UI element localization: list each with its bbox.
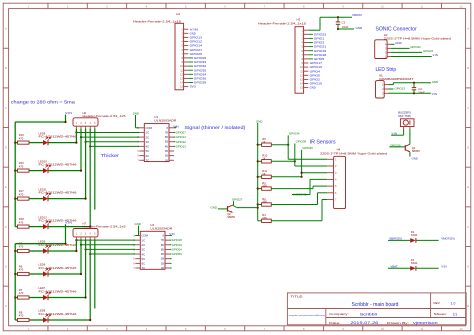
svg-text:GPIO19: GPIO19 xyxy=(172,243,183,247)
svg-text:MLT-7525: MLT-7525 xyxy=(398,114,411,118)
svg-text:100: 100 xyxy=(262,200,267,204)
svg-text:7B: 7B xyxy=(161,239,164,242)
svg-text:8: 8 xyxy=(181,56,183,60)
svg-text:6: 6 xyxy=(301,49,303,53)
svg-text:H: H xyxy=(5,304,7,308)
svg-text:2: 2 xyxy=(80,233,82,236)
svg-text:4: 4 xyxy=(385,42,387,46)
svg-text:6: 6 xyxy=(181,48,183,52)
svg-text:5: 5 xyxy=(185,327,187,331)
svg-text:5: 5 xyxy=(133,258,135,261)
svg-text:7B: 7B xyxy=(165,131,168,134)
svg-text:GPIO36: GPIO36 xyxy=(302,146,313,150)
svg-text:470: 470 xyxy=(19,136,24,140)
svg-text:D: D xyxy=(467,145,469,149)
svg-text:3: 3 xyxy=(106,4,108,8)
svg-text:Signal (thinner / isolated): Signal (thinner / isolated) xyxy=(184,125,245,131)
svg-text:13: 13 xyxy=(180,77,183,81)
svg-text:10: 10 xyxy=(180,64,183,68)
svg-text:B: B xyxy=(5,66,7,70)
svg-text:220S-1*7P H=8.5MM Ytype Gold-p: 220S-1*7P H=8.5MM Ytype Gold-plated xyxy=(384,37,452,41)
svg-text:220S-1*7P H=8.5MM Ytype Gold-p: 220S-1*7P H=8.5MM Ytype Gold-plated xyxy=(320,152,388,156)
svg-text:FC-A2012WD-457H6: FC-A2012WD-457H6 xyxy=(39,135,78,139)
svg-text:2: 2 xyxy=(67,327,69,331)
svg-text:V.IN: V.IN xyxy=(432,92,437,96)
svg-text:LED Strip: LED Strip xyxy=(376,67,397,73)
svg-text:4C: 4C xyxy=(146,145,150,149)
svg-text:11: 11 xyxy=(420,327,423,331)
svg-text:F: F xyxy=(5,225,7,229)
svg-text:SS34: SS34 xyxy=(411,233,418,237)
svg-text:1B: 1B xyxy=(165,159,168,162)
svg-text:GND: GND xyxy=(412,157,418,161)
svg-text:10uF: 10uF xyxy=(342,25,349,29)
svg-text:470: 470 xyxy=(19,192,24,196)
svg-text:1: 1 xyxy=(76,233,78,236)
svg-text:ULN2003ADR: ULN2003ADR xyxy=(154,119,177,123)
svg-text:GND: GND xyxy=(211,206,217,210)
svg-text:1K: 1K xyxy=(262,140,265,144)
svg-text:easyeda.com/vjmorrison/scribbl: easyeda.com/vjmorrison/scribblr-main xyxy=(289,314,326,317)
svg-text:10: 10 xyxy=(381,4,384,8)
svg-text:GPIO12: GPIO12 xyxy=(176,140,187,144)
svg-text:2019-07-26: 2019-07-26 xyxy=(350,321,378,325)
svg-text:14: 14 xyxy=(180,81,183,85)
svg-text:11: 11 xyxy=(300,69,303,73)
svg-text:8: 8 xyxy=(166,127,168,130)
svg-text:13: 13 xyxy=(300,78,303,82)
svg-text:G: G xyxy=(467,264,469,268)
svg-text:4: 4 xyxy=(181,40,183,44)
svg-text:1C: 1C xyxy=(146,131,150,135)
svg-text:FC-A2012WD-457H6: FC-A2012WD-457H6 xyxy=(39,290,78,294)
svg-text:vjmorrison: vjmorrison xyxy=(413,321,438,325)
svg-text:7: 7 xyxy=(301,53,303,57)
svg-text:9: 9 xyxy=(342,327,344,331)
svg-text:5C: 5C xyxy=(146,149,150,153)
svg-text:8: 8 xyxy=(301,57,303,61)
svg-text:3: 3 xyxy=(301,37,303,41)
svg-text:V.IN: V.IN xyxy=(441,265,446,269)
svg-text:H: H xyxy=(467,304,469,308)
svg-text:1K: 1K xyxy=(262,156,265,160)
svg-text:4: 4 xyxy=(146,4,148,8)
svg-text:IR Sensors: IR Sensors xyxy=(310,139,336,145)
svg-text:2B: 2B xyxy=(161,262,164,265)
svg-text:7: 7 xyxy=(264,4,266,8)
svg-text:Company:: Company: xyxy=(329,312,349,316)
svg-text:6: 6 xyxy=(335,191,337,195)
svg-text:GPIO18: GPIO18 xyxy=(172,238,183,242)
svg-text:2: 2 xyxy=(335,164,337,168)
svg-text:1: 1 xyxy=(335,157,337,161)
svg-text:4: 4 xyxy=(146,327,148,331)
svg-text:5: 5 xyxy=(137,150,139,153)
svg-text:3C: 3C xyxy=(142,248,146,252)
svg-text:8: 8 xyxy=(303,327,305,331)
svg-text:12: 12 xyxy=(460,4,463,8)
svg-text:5B: 5B xyxy=(165,141,168,144)
svg-text:10: 10 xyxy=(381,327,384,331)
svg-text:GPIO13: GPIO13 xyxy=(395,86,406,90)
svg-text:2: 2 xyxy=(385,51,387,55)
svg-text:1: 1 xyxy=(28,4,30,8)
svg-text:GPIO26: GPIO26 xyxy=(390,143,401,147)
svg-text:14: 14 xyxy=(300,82,303,86)
svg-text:SONIC Connector: SONIC Connector xyxy=(376,26,417,32)
svg-text:7C: 7C xyxy=(142,266,146,270)
svg-text:GPIO14: GPIO14 xyxy=(176,135,187,139)
svg-text:1: 1 xyxy=(382,83,384,87)
svg-text:12: 12 xyxy=(300,73,303,77)
svg-text:COM: COM xyxy=(142,234,149,238)
svg-text:5B: 5B xyxy=(161,248,164,251)
svg-text:GPIO07: GPIO07 xyxy=(176,131,187,135)
svg-text:GPIO05: GPIO05 xyxy=(172,252,183,256)
svg-text:470: 470 xyxy=(19,245,24,249)
svg-text:GPIO22: GPIO22 xyxy=(410,45,421,49)
svg-text:C: C xyxy=(467,106,469,110)
svg-text:11: 11 xyxy=(180,68,183,72)
svg-text:1C: 1C xyxy=(142,238,146,242)
svg-text:12: 12 xyxy=(180,72,183,76)
svg-text:E: E xyxy=(5,185,7,189)
svg-text:GPIO13: GPIO13 xyxy=(176,144,187,148)
svg-text:6C: 6C xyxy=(142,262,146,266)
svg-text:100: 100 xyxy=(262,216,267,220)
svg-text:4C: 4C xyxy=(142,252,146,256)
svg-text:Drawn By:: Drawn By: xyxy=(387,321,409,325)
svg-text:2: 2 xyxy=(301,32,303,36)
svg-text:100: 100 xyxy=(262,184,267,188)
svg-text:GND: GND xyxy=(432,80,438,84)
svg-text:S8050: S8050 xyxy=(227,215,235,219)
svg-text:4B: 4B xyxy=(165,145,168,148)
svg-text:10uF: 10uF xyxy=(418,91,425,95)
svg-text:8: 8 xyxy=(162,235,164,238)
svg-text:7: 7 xyxy=(335,198,337,202)
svg-text:V.IN: V.IN xyxy=(433,53,438,57)
svg-text:6B: 6B xyxy=(165,136,168,139)
svg-text:F: F xyxy=(467,225,469,229)
svg-text:5: 5 xyxy=(94,122,96,125)
svg-text:GND: GND xyxy=(135,222,141,226)
svg-text:3C: 3C xyxy=(146,140,150,144)
svg-text:12: 12 xyxy=(460,327,463,331)
svg-text:Scribblr - main board: Scribblr - main board xyxy=(352,302,399,308)
svg-text:SS34: SS34 xyxy=(411,261,418,265)
svg-text:GPIO34: GPIO34 xyxy=(289,131,300,135)
svg-text:1: 1 xyxy=(301,28,303,32)
svg-text:FC-A2012WD-457H6: FC-A2012WD-457H6 xyxy=(39,312,78,316)
svg-text:FC-A2012WD-457H6: FC-A2012WD-457H6 xyxy=(39,163,78,167)
svg-text:G: G xyxy=(5,264,7,268)
svg-text:5: 5 xyxy=(335,184,337,188)
svg-text:2: 2 xyxy=(80,122,82,125)
svg-text:6C: 6C xyxy=(146,154,150,158)
svg-text:GPIO04: GPIO04 xyxy=(172,248,183,252)
svg-text:GND: GND xyxy=(256,119,262,123)
svg-text:S8050: S8050 xyxy=(412,149,421,153)
svg-text:6: 6 xyxy=(224,4,226,8)
svg-text:D: D xyxy=(5,145,7,149)
svg-text:V.IN: V.IN xyxy=(65,111,72,115)
svg-text:COM: COM xyxy=(146,126,153,130)
svg-text:11: 11 xyxy=(420,4,423,8)
svg-text:GPIO27: GPIO27 xyxy=(232,197,243,201)
svg-text:9: 9 xyxy=(301,61,303,65)
svg-text:4: 4 xyxy=(335,178,337,182)
svg-text:1: 1 xyxy=(181,27,183,31)
svg-text:7: 7 xyxy=(264,327,266,331)
svg-text:H1: H1 xyxy=(176,12,180,16)
svg-text:2C: 2C xyxy=(142,243,146,247)
svg-text:2B: 2B xyxy=(165,155,168,158)
svg-text:C: C xyxy=(5,106,7,110)
svg-text:7C: 7C xyxy=(146,158,150,162)
svg-text:change to 280 ohm = 5ma: change to 280 ohm = 5ma xyxy=(11,100,75,106)
svg-text:9: 9 xyxy=(181,60,183,64)
svg-text:V.IN: V.IN xyxy=(392,132,397,136)
svg-text:GND: GND xyxy=(310,86,317,90)
svg-text:Date:: Date: xyxy=(329,321,341,325)
svg-text:E: E xyxy=(467,185,469,189)
svg-text:FC-A2012WD-457H6: FC-A2012WD-457H6 xyxy=(39,191,78,195)
svg-text:5: 5 xyxy=(94,233,96,236)
svg-text:1: 1 xyxy=(28,327,30,331)
svg-text:1/1: 1/1 xyxy=(453,312,458,316)
svg-text:15: 15 xyxy=(300,86,303,90)
svg-text:470: 470 xyxy=(19,291,24,295)
svg-text:10: 10 xyxy=(300,65,303,69)
svg-text:6: 6 xyxy=(133,262,135,265)
svg-text:A: A xyxy=(467,27,469,31)
svg-text:3: 3 xyxy=(85,122,87,125)
svg-text:VDD5V: VDD5V xyxy=(352,13,362,17)
svg-text:8: 8 xyxy=(303,4,305,8)
svg-text:G020B400P900KMT: G020B400P900KMT xyxy=(379,77,414,81)
svg-text:1B: 1B xyxy=(161,267,164,270)
svg-text:3: 3 xyxy=(181,36,183,40)
svg-text:5: 5 xyxy=(185,4,187,8)
svg-text:1.0: 1.0 xyxy=(451,302,456,306)
svg-text:2C: 2C xyxy=(146,135,150,139)
svg-text:7: 7 xyxy=(133,267,135,270)
svg-text:2: 2 xyxy=(181,31,183,35)
svg-text:1K: 1K xyxy=(262,172,265,176)
svg-text:3: 3 xyxy=(385,46,387,50)
svg-text:GND: GND xyxy=(395,41,401,45)
svg-text:470: 470 xyxy=(19,164,24,168)
svg-text:1: 1 xyxy=(76,122,78,125)
svg-text:6B: 6B xyxy=(161,244,164,247)
svg-text:V.IN: V.IN xyxy=(169,232,174,236)
svg-text:3: 3 xyxy=(106,327,108,331)
svg-text:470: 470 xyxy=(19,268,24,272)
svg-text:3: 3 xyxy=(85,233,87,236)
svg-text:4: 4 xyxy=(301,41,303,45)
svg-text:6: 6 xyxy=(224,327,226,331)
svg-text:3: 3 xyxy=(335,171,337,175)
svg-text:2: 2 xyxy=(382,87,384,91)
svg-text:7: 7 xyxy=(181,52,183,56)
svg-text:B: B xyxy=(467,66,469,70)
svg-text:470: 470 xyxy=(19,314,24,318)
svg-text:FC-A2012WD-457H6: FC-A2012WD-457H6 xyxy=(39,266,78,270)
svg-text:3V3: 3V3 xyxy=(190,85,197,89)
svg-text:5: 5 xyxy=(181,44,183,48)
svg-text:4: 4 xyxy=(90,122,92,125)
svg-text:VBAT(5V): VBAT(5V) xyxy=(389,237,402,241)
svg-text:Sheet:: Sheet: xyxy=(434,312,448,316)
svg-text:V.IN: V.IN xyxy=(65,221,72,225)
svg-text:A: A xyxy=(5,27,7,31)
svg-text:470: 470 xyxy=(19,220,24,224)
svg-text:3B: 3B xyxy=(161,258,164,261)
svg-text:5C: 5C xyxy=(142,257,146,261)
svg-text:15: 15 xyxy=(180,85,183,89)
svg-text:7: 7 xyxy=(137,159,139,162)
svg-text:GPIO39: GPIO39 xyxy=(296,140,307,144)
svg-text:3: 3 xyxy=(382,91,384,95)
svg-text:4B: 4B xyxy=(161,253,164,256)
svg-text:6: 6 xyxy=(137,155,139,158)
svg-text:VMOT(5V): VMOT(5V) xyxy=(441,237,455,241)
svg-text:Header-Female-2.54_1x15: Header-Female-2.54_1x15 xyxy=(133,19,181,23)
svg-text:2: 2 xyxy=(67,4,69,8)
svg-text:C3: C3 xyxy=(342,20,346,24)
svg-text:Scribblr: Scribblr xyxy=(360,312,379,316)
svg-text:9: 9 xyxy=(133,235,135,238)
svg-text:V.IN: V.IN xyxy=(173,124,178,128)
svg-text:4: 4 xyxy=(90,233,92,236)
svg-text:Thicker: Thicker xyxy=(101,153,120,159)
svg-text:9: 9 xyxy=(342,4,344,8)
svg-text:[VDD3V3]: [VDD3V3] xyxy=(294,193,307,197)
svg-text:Header-Female-2.54_1x15: Header-Female-2.54_1x15 xyxy=(258,21,306,25)
svg-text:VBAT: VBAT xyxy=(390,265,398,269)
svg-text:TITLE:: TITLE: xyxy=(291,294,304,298)
svg-text:3B: 3B xyxy=(165,150,168,153)
svg-text:ULN2003ADR: ULN2003ADR xyxy=(150,226,173,230)
svg-text:GND: GND xyxy=(356,26,364,30)
svg-text:REV:: REV: xyxy=(434,301,441,305)
svg-text:5: 5 xyxy=(301,45,303,49)
